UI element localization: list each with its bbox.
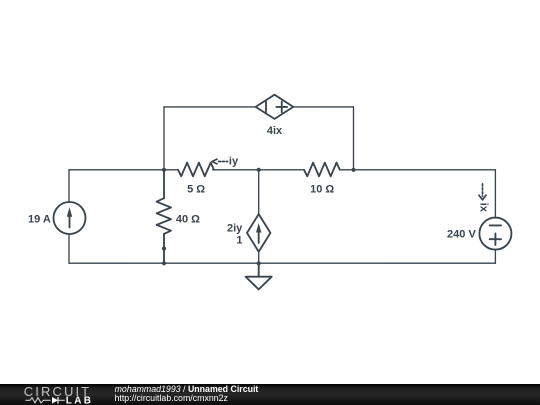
resistor 40 ohm	[157, 198, 171, 234]
wire right branch upper	[494, 170, 496, 218]
node at 5ohm right	[257, 168, 261, 172]
current arrow annotation iy	[212, 159, 228, 164]
svg-text:240 V: 240 V	[447, 228, 476, 240]
svg-text:40 Ω: 40 Ω	[176, 213, 200, 225]
svg-text:LAB: LAB	[66, 395, 93, 405]
svg-text:iy: iy	[229, 155, 239, 167]
dependent voltage source 4ix diamond	[256, 95, 294, 119]
wire middle branch lower	[258, 252, 260, 264]
voltage source 240V	[479, 218, 511, 250]
current arrow annotation ix	[479, 184, 486, 200]
svg-text:2iy: 2iy	[227, 223, 243, 235]
resistor 10 ohm	[304, 163, 340, 177]
wire left vertical riser	[163, 107, 165, 170]
current source 19A	[54, 202, 86, 234]
node at 5ohm left	[162, 168, 166, 172]
wire main row middle	[213, 169, 304, 171]
wire top-right horizontal	[293, 106, 354, 108]
wire main row right	[340, 169, 495, 171]
svg-text:http://circuitlab.com/cmxnn2z: http://circuitlab.com/cmxnn2z	[115, 393, 228, 403]
svg-text:4ix: 4ix	[267, 125, 283, 137]
wire middle branch upper	[258, 170, 260, 214]
logo diode symbol	[52, 397, 65, 404]
wire right vertical riser	[353, 107, 355, 170]
footer bar	[0, 384, 540, 405]
svg-text:1: 1	[236, 235, 242, 247]
wire left branch lower	[68, 234, 70, 263]
resistor 5 ohm	[178, 163, 214, 177]
svg-text:19 A: 19 A	[28, 214, 51, 226]
logo resistor zigzag	[26, 398, 51, 403]
ground symbol	[246, 263, 272, 289]
svg-text:ix: ix	[477, 203, 489, 213]
wire left branch upper	[68, 170, 70, 202]
svg-text:10 Ω: 10 Ω	[310, 184, 334, 196]
wire bottom rail	[69, 262, 495, 264]
svg-text:5 Ω: 5 Ω	[187, 183, 205, 195]
wire 40 ohm to bottom	[163, 234, 165, 263]
junction node dots	[162, 168, 356, 266]
node bottom rail left	[162, 261, 166, 265]
wire main row left	[69, 169, 177, 171]
node bottom rail ground	[257, 261, 261, 265]
node below 40ohm	[162, 246, 166, 250]
node at 10ohm right	[351, 168, 355, 172]
wire top-left horizontal	[164, 106, 256, 108]
wire from node to 40 ohm	[163, 170, 165, 198]
dependent current source 2iy diamond	[247, 214, 270, 252]
wire right branch lower	[494, 250, 496, 264]
